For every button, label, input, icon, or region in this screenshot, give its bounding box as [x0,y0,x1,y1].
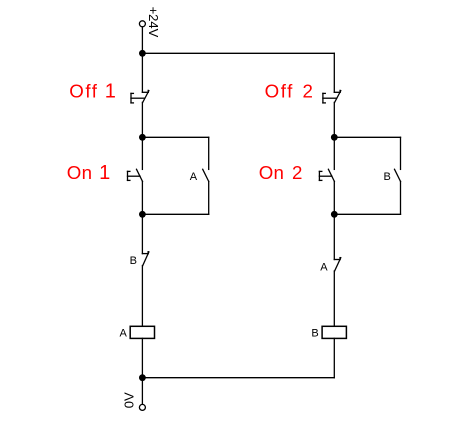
svg-text:On: On [67,162,93,183]
svg-text:2: 2 [292,162,302,183]
svg-text:Off: Off [69,81,98,102]
svg-text:B: B [130,255,137,267]
svg-text:A: A [120,328,128,340]
svg-text:Off: Off [265,81,294,102]
svg-text:1: 1 [105,81,116,103]
svg-text:A: A [320,261,328,273]
svg-text:2: 2 [303,81,313,102]
svg-text:B: B [384,171,391,183]
svg-text:+24V: +24V [146,7,161,38]
svg-text:On: On [259,162,285,183]
svg-text:B: B [311,328,318,340]
svg-text:0V: 0V [121,392,136,408]
svg-text:1: 1 [99,162,110,184]
svg-text:A: A [190,171,198,183]
